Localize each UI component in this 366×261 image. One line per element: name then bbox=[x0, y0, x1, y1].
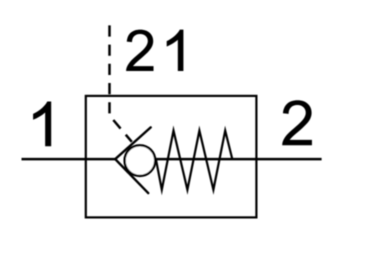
pilot line (dashed) to port 21 bbox=[110, 25, 132, 141]
check valve seat bbox=[115, 127, 151, 193]
spring bbox=[156, 131, 232, 190]
valve body box bbox=[86, 96, 257, 217]
check valve ball bbox=[125, 145, 156, 176]
wire port 1 line bbox=[22, 158, 117, 161]
label 2 bbox=[282, 100, 312, 145]
wire port 2 line bbox=[150, 158, 322, 161]
label 21 bbox=[126, 30, 153, 71]
label 1 bbox=[33, 102, 51, 147]
